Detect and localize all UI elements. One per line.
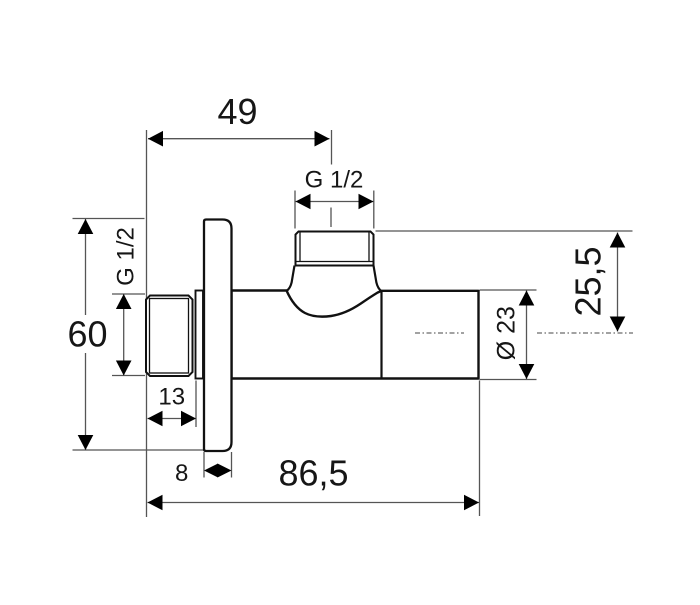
- arrow 13 left: [148, 411, 163, 427]
- arrow 49 right: [315, 131, 330, 147]
- thread fitting outer: [296, 232, 374, 266]
- extension lines G1/2 top: [294, 191, 296, 229]
- svg-text:8: 8: [175, 460, 188, 487]
- extension line 13 right: [195, 381, 197, 428]
- centerline stub above fitting: [330, 208, 332, 228]
- dimension line diameter 23: [526, 291, 528, 380]
- arrow 25,5 bottom: [610, 317, 626, 332]
- neck left side: [287, 266, 295, 291]
- extension line 25,5 top: [376, 230, 633, 232]
- svg-text:Ø 23: Ø 23: [493, 306, 521, 360]
- dimension line 13: [148, 418, 197, 420]
- arrow 60 bottom: [78, 435, 94, 450]
- dimension line 49: [148, 138, 330, 140]
- extension lines nipple left dim: [112, 293, 145, 295]
- arrow d23 top: [519, 291, 535, 306]
- svg-text:G 1/2: G 1/2: [305, 167, 364, 194]
- centerline right (dash-dot): [415, 332, 464, 334]
- arrow G1/2 top left: [296, 194, 311, 210]
- dimension line 86,5: [148, 502, 480, 504]
- dimension line G1/2 top: [296, 201, 374, 203]
- dimension line G1/2 left vertical: [123, 294, 125, 376]
- arrow 86,5 right: [464, 495, 479, 511]
- arrow d23 bottom: [519, 364, 535, 379]
- nipple outer (chamfered): [146, 296, 193, 377]
- svg-text:25,5: 25,5: [567, 246, 608, 316]
- wall flange: [204, 220, 232, 452]
- arrows 8 bowtie: [204, 464, 218, 478]
- arrow 25,5 top: [610, 233, 626, 248]
- valve body outline: [232, 291, 479, 379]
- extension lines 60: [73, 218, 145, 220]
- arrow 86,5 left: [148, 495, 163, 511]
- arrow G1/2 top right: [359, 194, 374, 210]
- arrow G1/2 left bottom: [116, 361, 132, 376]
- extension line left master (x=146.5): [146, 130, 148, 517]
- extension lines 8: [203, 452, 205, 478]
- svg-text:G 1/2: G 1/2: [113, 227, 140, 286]
- extension line center stub upper (49 right): [331, 130, 333, 165]
- thread fitting inner lines: [299, 233, 301, 262]
- svg-text:60: 60: [67, 314, 107, 355]
- arrow 13 right: [181, 411, 196, 427]
- dimension line 60 (gap for text): [85, 219, 87, 315]
- svg-text:86,5: 86,5: [278, 453, 348, 494]
- dimension line 25,5: [617, 233, 619, 332]
- extension line 86,5 right: [479, 381, 481, 517]
- extension lines diameter 23: [480, 289, 537, 291]
- neck right side: [374, 266, 382, 292]
- body step line: [380, 292, 382, 378]
- nipple inner thread rect: [150, 299, 189, 374]
- arrow 49 left: [148, 131, 163, 147]
- collar: [196, 291, 204, 379]
- svg-text:49: 49: [217, 91, 257, 132]
- arrow G1/2 left top: [116, 294, 132, 309]
- arrow 60 top: [78, 219, 94, 234]
- svg-text:13: 13: [158, 384, 185, 411]
